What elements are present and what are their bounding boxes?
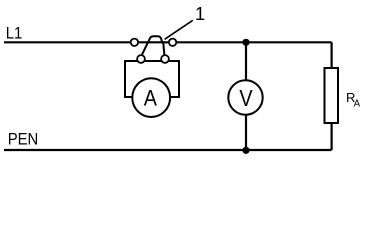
terminal circle lower left (ammeter box) — [137, 55, 145, 63]
junction dot on L1 at voltmeter branch — [242, 39, 249, 46]
voltmeter circle: meter V — [228, 80, 262, 114]
wire voltmeter top branch — [245, 42, 247, 80]
ammeter box enclosure — [125, 61, 179, 97]
svg-text:A: A — [354, 99, 361, 110]
wire resistor bottom branch — [331, 123, 333, 150]
wire PEN line — [4, 149, 332, 151]
svg-text:PEN: PEN — [8, 130, 39, 149]
svg-text:A: A — [144, 85, 157, 110]
junction dot on PEN at voltmeter branch — [242, 147, 249, 154]
resistor RA body — [325, 68, 339, 123]
leader line for label 1 — [165, 20, 193, 39]
svg-text:L1: L1 — [6, 24, 23, 43]
terminal circle lower right (ammeter box) — [161, 55, 169, 63]
wire voltmeter bottom branch — [245, 116, 247, 151]
terminal circle right on L1 — [169, 39, 176, 46]
ammeter circle U: meter A — [132, 78, 170, 117]
svg-text:1: 1 — [195, 3, 205, 24]
link strap (removable bridge), item 1 — [141, 36, 164, 56]
terminal circle left on L1 — [131, 39, 138, 46]
svg-text:V: V — [239, 85, 253, 111]
wire L1 line — [4, 41, 332, 43]
wire resistor top branch — [331, 42, 333, 68]
